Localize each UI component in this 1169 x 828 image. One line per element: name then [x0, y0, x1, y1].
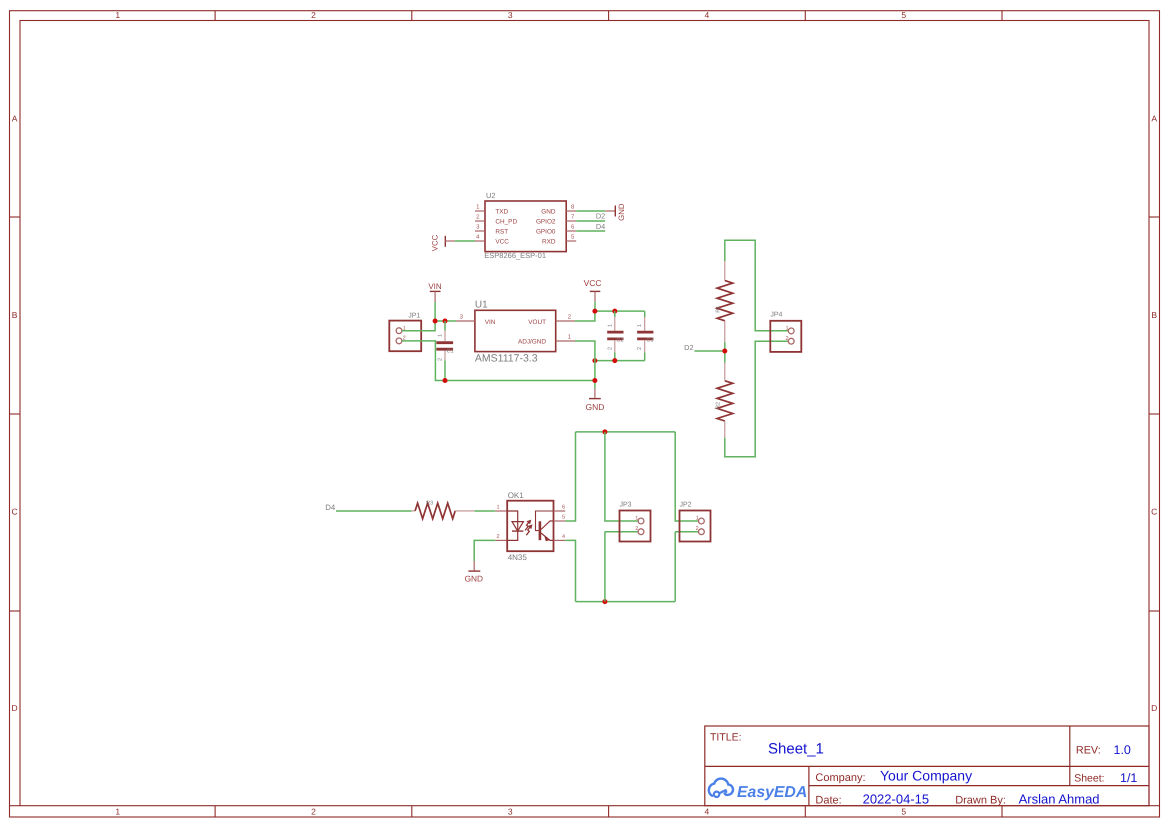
svg-text:TXD: TXD: [495, 208, 508, 215]
svg-text:5: 5: [571, 234, 575, 241]
svg-text:4: 4: [562, 534, 565, 540]
JP3 pin 1 circle: [638, 518, 644, 524]
svg-text:R2: R2: [716, 402, 722, 409]
svg-text:5: 5: [901, 10, 906, 20]
wire U2 pin8 green: [576, 210, 605, 212]
svg-text:C: C: [12, 507, 18, 517]
capacitor C2 top lead: [614, 317, 616, 331]
ruler tick left 3: [10, 610, 21, 612]
junction node vcc a: [592, 309, 597, 314]
svg-text:D2: D2: [596, 212, 605, 221]
svg-text:2: 2: [637, 347, 643, 350]
wire VIN stem green: [434, 302, 436, 321]
capacitor C1 plate 1: [436, 341, 453, 344]
svg-text:A: A: [1151, 114, 1157, 124]
wire R1 to node green: [724, 342, 726, 362]
optocoupler OK1 body: [507, 501, 553, 552]
connector JP2 body: [680, 511, 711, 542]
svg-text:D4: D4: [325, 503, 336, 512]
wire C2 top green: [614, 311, 616, 317]
svg-text:2: 2: [568, 314, 572, 321]
wire green to U2 pin4: [455, 240, 475, 242]
logo cloud node link: [719, 790, 726, 793]
svg-text:RST: RST: [495, 228, 508, 235]
junction node top rail: [602, 429, 607, 434]
svg-text:A: A: [12, 114, 18, 124]
ruler tick top 2: [411, 11, 413, 21]
op-amp U2 body: [485, 201, 566, 252]
svg-text:C2: C2: [617, 338, 624, 344]
svg-text:ESP8266_ESP-01: ESP8266_ESP-01: [484, 251, 546, 260]
wire JP2 pin2 down green: [674, 532, 676, 602]
ruler tick bottom 3: [608, 806, 610, 817]
svg-text:B: B: [1151, 310, 1157, 320]
ruler tick top 5: [1001, 11, 1003, 21]
wire divider top loop green: [725, 240, 789, 331]
wire VCC stem red: [594, 291, 596, 301]
svg-text:D: D: [1151, 703, 1157, 713]
ruler tick right bottom: [1149, 805, 1160, 807]
title block divider h1: [705, 765, 1149, 767]
svg-text:GND: GND: [541, 208, 556, 215]
svg-text:1: 1: [607, 324, 613, 327]
JP1 INPUT CONNECTOR AREA: [389, 282, 595, 383]
capacitor C2 bottom lead: [614, 340, 616, 352]
wire C1 top green: [444, 321, 446, 331]
pin 1 stub: [556, 340, 575, 342]
svg-text:1: 1: [496, 505, 499, 511]
svg-text:4: 4: [705, 807, 710, 817]
ruler tick left 2: [10, 413, 21, 415]
JP1 pin 1 circle: [396, 328, 402, 334]
svg-text:2: 2: [607, 347, 613, 350]
resistor R2 top lead: [724, 363, 726, 381]
OK1 pin 2 stub: [495, 539, 507, 541]
wire pin5 up green: [565, 432, 575, 521]
wire D2 green: [695, 350, 725, 352]
wire D4 green: [336, 510, 412, 512]
capacitor C2 plate 2: [607, 337, 623, 340]
wire JP1 pin1 green: [402, 321, 435, 331]
wire U2 pin7 green: [576, 220, 605, 222]
pin 6 GPIO0 stub: [566, 230, 576, 232]
wire C3 to rail green: [644, 352, 646, 360]
wire C1 to rail green: [444, 360, 446, 380]
ruler tick bottom 2: [411, 806, 413, 817]
svg-text:2: 2: [438, 358, 444, 361]
svg-text:C: C: [1151, 507, 1157, 517]
pin 3 RST stub: [475, 230, 485, 232]
svg-text:REV:: REV:: [1076, 744, 1101, 756]
svg-text:VIN: VIN: [428, 282, 442, 291]
svg-text:C1: C1: [447, 348, 454, 354]
power flag VIN bar: [430, 290, 441, 292]
svg-text:JP1: JP1: [408, 313, 420, 320]
svg-text:1: 1: [438, 334, 444, 337]
resistor R1 zigzag: [717, 281, 733, 321]
svg-text:1: 1: [637, 324, 643, 327]
svg-text:1: 1: [115, 807, 120, 817]
title block divider v logo: [808, 766, 810, 805]
power flag VCC bar: [590, 290, 601, 292]
capacitor C2 plate 1: [607, 331, 623, 334]
OK1 led anode line: [507, 511, 518, 531]
svg-text:6: 6: [562, 505, 565, 511]
OK1 light arrow 1 head: [526, 520, 531, 525]
svg-text:AMS1117-3.3: AMS1117-3.3: [475, 353, 538, 365]
JP4 pin 1 circle: [788, 328, 794, 334]
VCC / OUTPUT CAP AREA: [575, 278, 653, 412]
connector JP1 body: [389, 321, 421, 352]
svg-text:TITLE:: TITLE:: [710, 732, 742, 744]
OK1 emitter: [541, 533, 554, 540]
capacitor C1 top lead: [444, 331, 446, 342]
resistor R2 bottom lead: [724, 421, 726, 438]
U1 AMS1117 REGULATOR: [456, 300, 575, 365]
svg-text:R1: R1: [716, 306, 722, 313]
svg-text:4N35: 4N35: [508, 553, 528, 562]
svg-text:Date:: Date:: [815, 795, 841, 807]
OK1 light arrow 1: [525, 522, 529, 531]
svg-text:Your Company: Your Company: [880, 768, 972, 784]
svg-text:GND: GND: [465, 573, 483, 583]
junction node vcc b: [612, 309, 617, 314]
junction node gnd a: [592, 358, 597, 363]
wire VIN stem red: [434, 291, 436, 302]
OPTOCOUPLER SECTION: [325, 429, 710, 604]
wire JP2 pin2 drop green: [675, 531, 698, 533]
wire JP3 pin2 down green: [604, 532, 606, 602]
RESISTOR DIVIDER / JP4: [684, 240, 801, 457]
svg-text:6: 6: [571, 224, 575, 231]
wire JP2 pin1 drop green: [675, 432, 698, 521]
svg-text:3: 3: [460, 314, 464, 321]
ground flag GND bar: [589, 398, 601, 400]
junction node VIN a: [433, 319, 438, 324]
svg-text:Company:: Company:: [815, 772, 865, 784]
OK1 pin 5 stub: [554, 520, 566, 522]
ruler tick top 3: [608, 11, 610, 21]
junction node gnd rail: [592, 378, 597, 383]
svg-text:1.0: 1.0: [1114, 743, 1131, 757]
svg-text:U2: U2: [486, 191, 496, 200]
OK1 transistor bar: [539, 521, 542, 540]
wire divider bottom loop green: [725, 341, 789, 457]
resistor R2 zigzag: [717, 381, 733, 421]
JP1 pin 2 circle: [396, 338, 402, 344]
wire U2 pin8 red to gnd: [605, 210, 615, 212]
svg-text:EasyEDA: EasyEDA: [737, 784, 807, 801]
ground flag GND bar: [468, 570, 480, 572]
capacitor C3 top lead: [644, 317, 646, 331]
svg-text:4: 4: [476, 234, 480, 241]
svg-text:JP4: JP4: [770, 312, 782, 319]
wire gnd rail green: [595, 360, 645, 362]
TITLE BLOCK: [705, 726, 1149, 806]
svg-text:GND: GND: [585, 402, 604, 412]
svg-text:JP2: JP2: [680, 502, 692, 509]
junction node jp1 rail: [443, 378, 448, 383]
connector JP3 body: [620, 511, 651, 542]
wire U1 pin2 green: [575, 311, 595, 321]
title block divider h2: [809, 785, 1149, 787]
svg-text:1/1: 1/1: [1120, 771, 1137, 785]
OK1 emitter arrow head: [544, 536, 549, 541]
wire gnd stem red: [473, 561, 475, 571]
svg-text:Sheet_1: Sheet_1: [768, 741, 824, 758]
title block divider v rev: [1069, 726, 1071, 786]
wire OK1 pin2 to gnd green: [474, 540, 495, 561]
svg-text:VCC: VCC: [584, 278, 602, 288]
svg-text:GPIO2: GPIO2: [536, 218, 556, 225]
svg-text:1: 1: [476, 204, 480, 211]
OK1 pin 6 stub: [554, 510, 566, 512]
svg-text:2022-04-15: 2022-04-15: [863, 792, 930, 807]
JP2 pin 2 circle: [699, 529, 705, 535]
svg-text:OK1: OK1: [508, 491, 525, 500]
resistor R3 zigzag: [415, 503, 455, 519]
svg-text:3: 3: [508, 807, 513, 817]
JP3 pin 2 circle: [638, 529, 644, 535]
wire VCC bar to green: [445, 240, 455, 242]
svg-text:2: 2: [496, 534, 499, 540]
title block outline: [705, 726, 1149, 806]
wire JP3 pin1 drop green: [605, 432, 638, 521]
pin 1 TXD stub: [475, 210, 485, 212]
ruler tick bottom 1: [214, 806, 216, 817]
wire C2 to rail green: [614, 352, 616, 360]
wire cap3 drop green: [644, 311, 646, 317]
pin 4 VCC stub: [475, 240, 485, 242]
OK1 pin 4 stub: [554, 539, 566, 541]
junction node VIN b: [443, 319, 448, 324]
wire pin4 down green: [565, 540, 575, 601]
capacitor C3 bottom lead: [644, 340, 646, 352]
svg-text:CH_PD: CH_PD: [495, 218, 517, 225]
logo cloud node circle: [714, 792, 719, 797]
svg-text:VCC: VCC: [495, 238, 509, 245]
svg-text:1: 1: [115, 10, 120, 20]
svg-text:ADJ/GND: ADJ/GND: [518, 339, 546, 346]
svg-text:7: 7: [571, 214, 575, 221]
svg-text:U1: U1: [475, 300, 488, 311]
svg-text:JP3: JP3: [620, 502, 632, 509]
JP2 pin 1 circle: [699, 518, 705, 524]
ground flag at U2 pin8 bar: [614, 206, 616, 217]
pin 7 GPIO2 stub: [566, 220, 576, 222]
svg-text:VCC: VCC: [431, 234, 440, 251]
pin 3 stub: [456, 320, 475, 322]
svg-text:VIN: VIN: [485, 319, 496, 326]
svg-text:GPIO0: GPIO0: [536, 228, 556, 235]
svg-text:D2: D2: [684, 343, 693, 352]
svg-text:5: 5: [901, 807, 906, 817]
ruler tick right 2: [1149, 413, 1160, 415]
OK1 pin 1 stub: [495, 510, 507, 512]
svg-text:C3: C3: [646, 338, 653, 344]
svg-text:D: D: [12, 703, 18, 713]
logo cloud: [709, 779, 733, 796]
svg-text:1: 1: [785, 326, 788, 332]
svg-text:5: 5: [562, 515, 565, 521]
svg-text:2: 2: [785, 336, 788, 342]
OK1 led cathode bar: [512, 530, 523, 532]
wire VCC stem green: [594, 302, 596, 311]
OK1 light arrow 2: [526, 527, 530, 536]
OK1 led triangle: [512, 522, 523, 532]
U2 ESP8266 MODULE: [431, 191, 627, 260]
svg-text:RXD: RXD: [542, 238, 556, 245]
wire vcc rail green: [595, 310, 645, 312]
OK1 collector: [541, 521, 554, 530]
JP4 pin 2 circle: [788, 338, 794, 344]
svg-text:R3: R3: [426, 500, 433, 506]
connector JP4 body: [770, 321, 801, 352]
capacitor C1 bottom lead: [444, 351, 446, 361]
junction node bottom rail: [602, 599, 607, 604]
svg-text:3: 3: [508, 10, 513, 20]
capacitor C3 plate 2: [637, 337, 653, 340]
wire bottom rail green: [576, 601, 676, 603]
capacitor C3 plate 1: [637, 331, 653, 334]
wire U2 pin6 green: [576, 230, 605, 232]
ruler tick bottom 4: [804, 806, 806, 817]
svg-text:B: B: [12, 310, 18, 320]
capacitor C1 plate 2: [436, 348, 453, 351]
wire R3 to OK1 green: [475, 510, 496, 512]
svg-text:2: 2: [311, 10, 316, 20]
svg-text:VOUT: VOUT: [528, 319, 546, 326]
svg-text:1: 1: [635, 516, 638, 522]
wire JP3 pin2 drop green: [605, 531, 638, 533]
pin 5 RXD stub: [566, 240, 576, 242]
ruler tick top 4: [804, 11, 806, 21]
wire gnd drop green: [594, 361, 596, 389]
resistor R1 top lead: [724, 261, 726, 281]
OK1 light arrow 2 head: [528, 524, 533, 529]
junction node divider: [722, 349, 727, 354]
OK1 led cathode line: [507, 531, 518, 540]
pin 2 CH_PD stub: [475, 220, 485, 222]
EasyEDA logo: [709, 779, 807, 801]
svg-text:3: 3: [476, 224, 480, 231]
ruler tick left 1: [10, 216, 21, 218]
ruler tick right 3: [1149, 610, 1160, 612]
wire U1 pin1 green: [575, 341, 595, 361]
resistor R3 right lead: [455, 510, 474, 512]
junction node gnd b: [612, 358, 617, 363]
resistor R3 left lead: [412, 510, 416, 512]
svg-text:2: 2: [635, 526, 638, 532]
pin 2 stub: [556, 320, 575, 322]
wire gnd stem red: [594, 389, 596, 399]
wire JP1 pin2 green: [402, 341, 595, 381]
svg-text:4: 4: [705, 10, 710, 20]
regulator U1 body: [475, 310, 556, 351]
svg-text:2: 2: [476, 214, 480, 221]
svg-text:Sheet:: Sheet:: [1074, 773, 1104, 785]
ruler tick top 1: [214, 11, 216, 21]
pin 8 GND stub: [566, 210, 576, 212]
OK1 base link: [536, 511, 554, 531]
resistor R1 bottom lead: [724, 321, 726, 342]
svg-text:2: 2: [696, 526, 699, 532]
svg-text:Arslan Ahmad: Arslan Ahmad: [1019, 792, 1100, 807]
svg-text:1: 1: [568, 334, 572, 341]
wire top rail green: [576, 431, 676, 433]
svg-text:Drawn By:: Drawn By:: [955, 795, 1006, 807]
wire VIN node to cap green: [435, 320, 456, 322]
ruler tick bottom 5: [1001, 806, 1003, 817]
svg-text:D4: D4: [596, 222, 605, 231]
svg-text:1: 1: [696, 516, 699, 522]
svg-text:8: 8: [571, 204, 575, 211]
ruler tick right 1: [1149, 216, 1160, 218]
svg-text:2: 2: [311, 807, 316, 817]
power flag VCC at U2 pin4 bar: [444, 236, 446, 247]
svg-text:GND: GND: [617, 203, 626, 221]
ruler tick left bottom: [10, 805, 21, 807]
